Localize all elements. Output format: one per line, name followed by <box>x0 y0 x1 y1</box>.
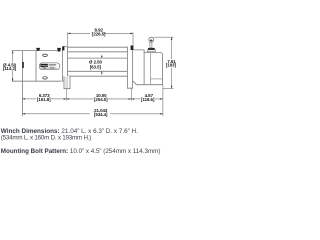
clutch knob <box>149 37 154 42</box>
dim dia 2.50 line <box>101 55 103 58</box>
dim 7.61 text <box>165 59 178 67</box>
gear housing outline <box>137 53 163 85</box>
right plate top nub <box>131 45 134 50</box>
drum flange disc <box>62 46 67 81</box>
svg-text:[63.5]: [63.5] <box>90 65 102 70</box>
dim row1 10.00 <box>66 98 93 100</box>
dim dia 4.50 text <box>3 62 16 70</box>
svg-text:(534mm L. x 160m D. x 193mm H.: (534mm L. x 160m D. x 193mm H.) <box>1 134 91 141</box>
gear housing mid top <box>133 50 144 85</box>
tie rod upper top <box>68 46 128 48</box>
winch body bottom line with left extension <box>12 80 62 82</box>
left foot slot <box>65 77 67 89</box>
dim 8.92 line <box>68 32 90 34</box>
box top bolt left <box>36 48 40 51</box>
dim 7.61 extension top <box>154 36 174 38</box>
svg-text:[226.5]: [226.5] <box>92 31 106 36</box>
svg-text:[118.6]: [118.6] <box>141 97 155 102</box>
dim row2 21.043 <box>22 113 90 115</box>
clutch stem <box>150 42 152 48</box>
drum barrel top <box>68 57 128 59</box>
right foot chamfer <box>133 81 137 85</box>
dim dia 4.50 line <box>12 51 14 82</box>
left foot dim extension <box>65 89 67 101</box>
control box left edge <box>35 51 37 82</box>
dim row1 6.373 <box>22 98 36 100</box>
gear housing seam <box>150 78 162 80</box>
right support plate <box>127 47 132 89</box>
svg-text:[193]: [193] <box>166 63 177 68</box>
clutch boss <box>147 50 155 52</box>
label text lines <box>49 63 57 66</box>
winch body top line with left extension <box>12 50 61 52</box>
label logo block <box>40 64 47 67</box>
dim row1 4.67 <box>131 98 140 100</box>
dim dia 2.50 text <box>89 59 102 69</box>
dim 7.61 line <box>171 37 173 88</box>
dim right extension <box>162 85 164 116</box>
svg-text:[114.3]: [114.3] <box>3 66 17 71</box>
left mounting foot <box>64 76 70 89</box>
winch left face / dim extension <box>21 51 23 117</box>
gear housing parting line <box>149 53 151 85</box>
dim 8.92 extension right <box>132 32 134 45</box>
box face oval bolt top <box>43 54 48 56</box>
control box right edge <box>61 51 63 82</box>
box face oval bolt bottom <box>43 77 48 79</box>
svg-text:Mounting Bolt Pattern: 10.0” x: Mounting Bolt Pattern: 10.0” x 4.5” (254… <box>1 148 161 155</box>
dim 8.92 extension left <box>67 32 69 46</box>
box top bolt right <box>57 48 61 52</box>
label plate <box>40 63 60 70</box>
svg-text:[534.4]: [534.4] <box>94 112 108 117</box>
right foot dim extension <box>130 88 132 101</box>
drum barrel bottom <box>68 70 128 72</box>
svg-text:[254.0]: [254.0] <box>94 97 108 102</box>
dim 7.61 extension bottom <box>163 87 174 89</box>
motor clip tick <box>22 62 24 68</box>
tie rod end nub <box>62 46 64 50</box>
tie rod lower top <box>68 75 128 77</box>
svg-text:[161.8]: [161.8] <box>37 97 51 102</box>
clutch base <box>148 48 155 50</box>
tie rod upper bottom <box>68 51 128 53</box>
